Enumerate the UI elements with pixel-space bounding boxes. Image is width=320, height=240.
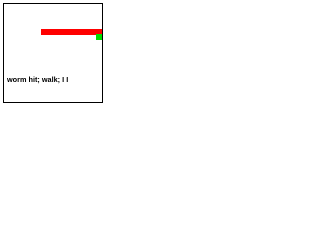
worm body (red bar) — [41, 29, 102, 35]
status text — [7, 75, 68, 84]
border frame — [3, 3, 103, 103]
worm head (green square) — [96, 34, 102, 40]
